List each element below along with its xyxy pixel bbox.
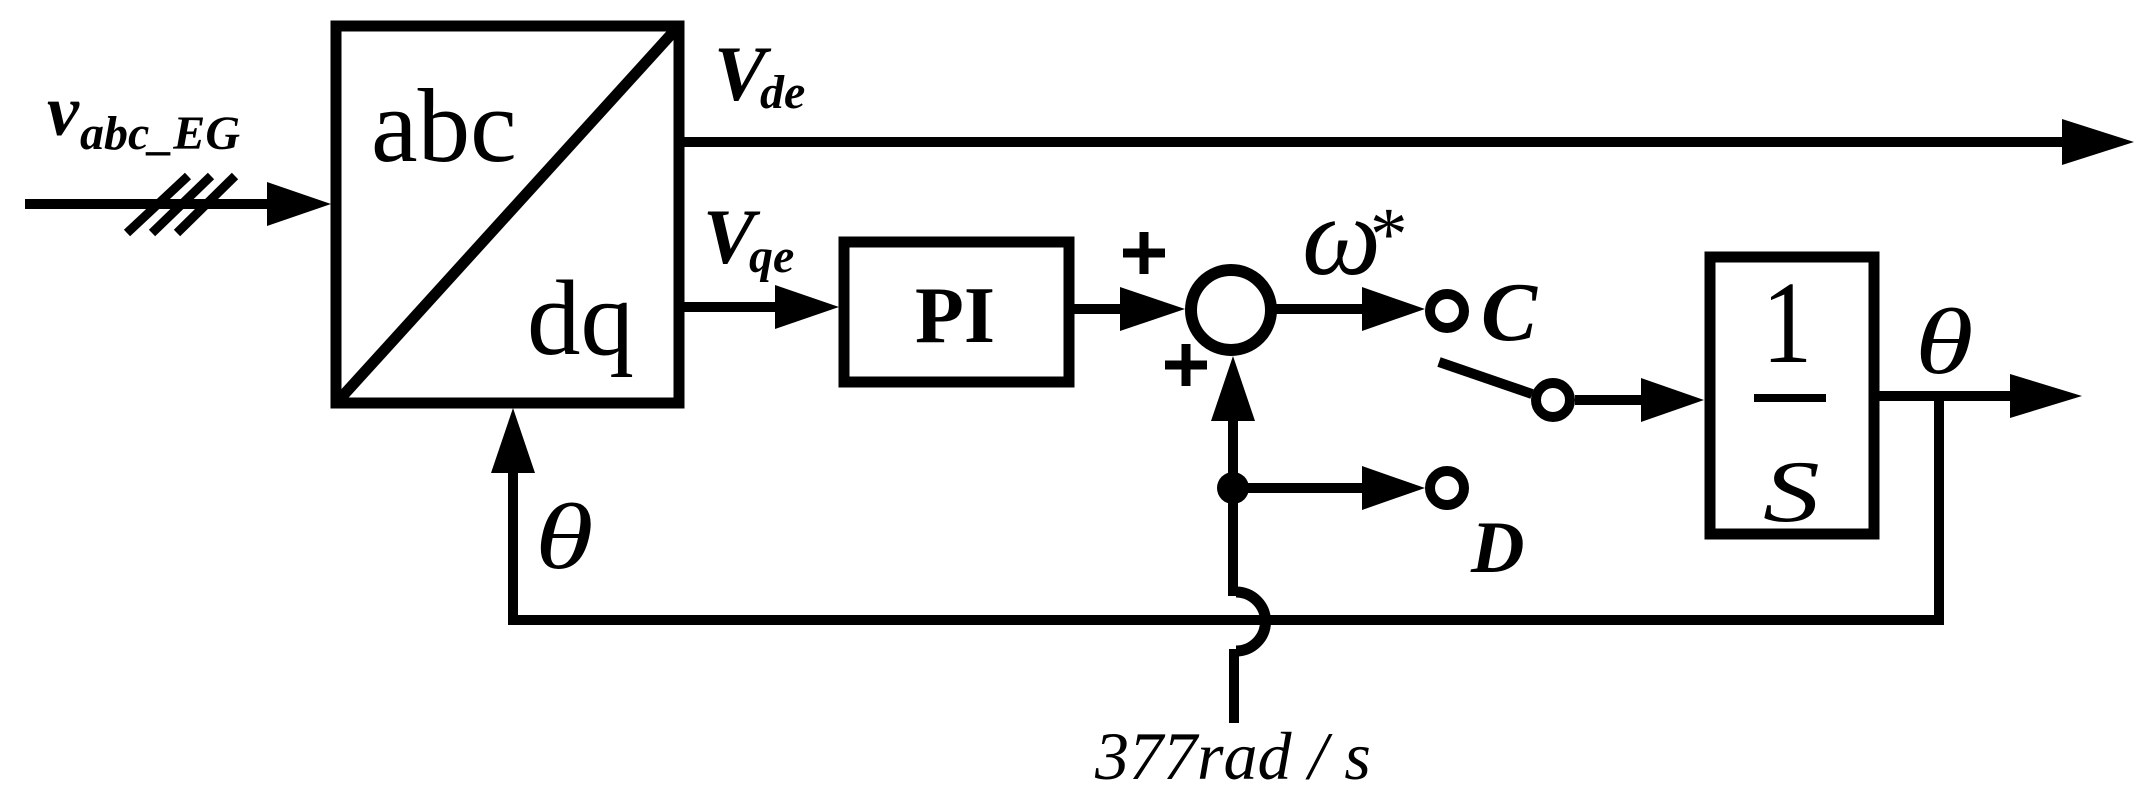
fraction bar	[1754, 394, 1826, 402]
svg-text:abc_EG: abc_EG	[80, 107, 240, 160]
label omega-star	[1302, 175, 1408, 299]
arrowhead into integrator	[1641, 378, 1704, 422]
wire PI to summer	[1069, 304, 1125, 314]
svg-text:θ: θ	[1915, 291, 1973, 394]
three-phase slash marks	[127, 176, 235, 233]
label s (denominator)	[1763, 442, 1820, 540]
wire integrator output	[1874, 391, 2015, 401]
block abc/dq	[336, 26, 679, 403]
line hop over feedback	[1236, 592, 1266, 651]
switch arm	[1439, 362, 1532, 394]
svg-text:θ: θ	[535, 486, 593, 589]
wire Vde output	[680, 137, 2067, 147]
svg-text:S: S	[1763, 442, 1820, 540]
svg-text:v: v	[47, 71, 80, 151]
svg-text:qe: qe	[749, 230, 794, 283]
label theta left	[535, 486, 593, 589]
svg-text:1: 1	[1762, 256, 1812, 387]
svg-text:377rad / s: 377rad / s	[1094, 718, 1371, 794]
switch pole circle	[1536, 383, 1570, 417]
svg-text:C: C	[1481, 266, 1538, 359]
arrowhead into PI	[775, 285, 839, 329]
arrowhead theta output	[2010, 374, 2082, 418]
svg-text:de: de	[760, 66, 805, 119]
block PI	[844, 242, 1069, 382]
svg-text:D: D	[1470, 507, 1524, 589]
summing junction	[1191, 270, 1271, 350]
svg-text:*: *	[1370, 193, 1408, 276]
wire Vqe to PI	[680, 302, 780, 312]
contact D circle	[1430, 471, 1464, 505]
label 1 (numerator)	[1762, 256, 1812, 387]
arrowhead at contact C	[1362, 287, 1425, 331]
wire input vabc	[25, 199, 272, 209]
wire 377 rad/s up to summer	[1228, 415, 1238, 596]
svg-text:abc: abc	[371, 67, 517, 184]
svg-text:PI: PI	[915, 272, 995, 360]
plus sign lower	[1165, 344, 1207, 386]
label theta right	[1915, 291, 1973, 394]
arrowhead into summer bottom	[1211, 356, 1255, 421]
wire feedback left vertical	[508, 470, 518, 625]
wire feedback right vertical	[1934, 396, 1944, 625]
junction dot	[1217, 472, 1249, 504]
wire summer to contact C	[1271, 304, 1367, 314]
contact C circle	[1430, 294, 1464, 328]
plus sign upper	[1123, 232, 1165, 274]
wire from 377 source	[1229, 649, 1239, 723]
label Vde	[714, 30, 805, 119]
label v_abc_EG	[47, 71, 240, 160]
wire junction to contact D	[1233, 483, 1367, 493]
arrowhead Vde output	[2062, 119, 2134, 165]
label Vqe	[703, 193, 794, 283]
arrowhead at contact D	[1362, 466, 1425, 510]
arrowhead into abc-dq block	[267, 182, 331, 226]
svg-text:dq: dq	[527, 260, 634, 378]
arrowhead into summer	[1120, 287, 1185, 331]
block integrator 1/s	[1710, 257, 1874, 534]
arrowhead into abc-dq bottom	[491, 408, 535, 473]
wire pole to integrator	[1575, 395, 1646, 405]
wire feedback bottom horizontal	[508, 615, 1944, 625]
diagonal of abc/dq block	[339, 29, 676, 400]
